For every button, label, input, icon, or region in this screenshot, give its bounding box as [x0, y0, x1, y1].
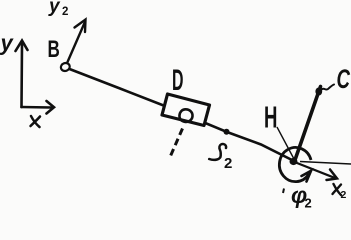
H pointer line	[277, 127, 294, 159]
svg-text:2: 2	[341, 189, 347, 201]
squiggle to C	[322, 85, 335, 90]
label x2 (crossed strokes)	[333, 184, 342, 195]
svg-text:y: y	[48, 0, 61, 17]
svg-text:2: 2	[305, 196, 312, 211]
dashed slider axis	[171, 129, 183, 157]
label x (two crossed strokes)	[31, 116, 41, 127]
phi2 rotation arc around hub	[279, 147, 311, 181]
hub center dot	[290, 158, 298, 165]
svg-text:2: 2	[224, 155, 232, 172]
C end dot	[315, 88, 322, 96]
pin circle in block D	[179, 109, 192, 122]
S2 mass-center dot	[224, 129, 230, 135]
phi2 arc arrowhead	[302, 171, 312, 182]
svg-text:2: 2	[62, 6, 68, 18]
svg-text:D: D	[172, 64, 183, 98]
svg-text:H: H	[264, 101, 277, 135]
x2 axis arrow	[297, 163, 337, 180]
link 2 wire from B to hub	[70, 69, 294, 161]
svg-text:C: C	[337, 64, 351, 94]
y-axis	[16, 41, 28, 108]
svg-text:y: y	[0, 31, 15, 56]
horizontal reference line	[300, 162, 351, 165]
svg-text:B: B	[47, 36, 59, 63]
link 3 from C to hub	[296, 87, 321, 159]
label phi2 with tick	[283, 189, 284, 194]
label S2 (script S)	[209, 144, 226, 160]
point B circle	[60, 62, 71, 72]
x-axis	[22, 101, 55, 114]
slider block D	[162, 94, 210, 126]
y2-axis	[68, 20, 86, 63]
